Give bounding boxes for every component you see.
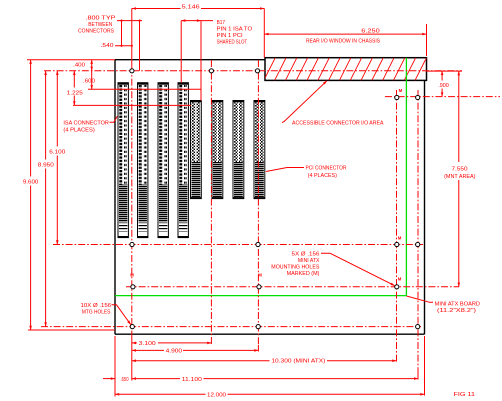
dimension .600 line	[90, 71, 93, 90]
dimension .800 line	[117, 20, 142, 22]
svg-text:B17: B17	[217, 20, 226, 26]
svg-text:7.550: 7.550	[452, 167, 468, 173]
ISA connector 1	[118, 83, 128, 238]
svg-text:(MNT AREA): (MNT AREA)	[444, 174, 476, 180]
dimension 12.000 line	[115, 393, 425, 396]
mini-ATX mounting hole M3	[395, 285, 399, 289]
svg-text:ISA CONNECTOR: ISA CONNECTOR	[63, 121, 109, 127]
centerline row top holes y=70.8	[44, 70, 462, 72]
svg-text:M: M	[398, 236, 402, 241]
svg-text:.400: .400	[73, 63, 85, 69]
svg-text:PIN 1 PCI: PIN 1 PCI	[217, 33, 243, 39]
dimension 5.146 line	[132, 7, 264, 10]
svg-text:M: M	[258, 273, 262, 278]
mounting hole 3	[255, 69, 259, 73]
svg-text:(4 PLACES): (4 PLACES)	[63, 128, 95, 134]
mounting hole 7	[416, 242, 420, 246]
svg-text:10.300 (MINI ATX): 10.300 (MINI ATX)	[271, 359, 325, 365]
extension row y=71.1 right	[426, 70, 462, 72]
svg-text:SHARED SLOT: SHARED SLOT	[217, 40, 248, 46]
dimension 8.950 line	[44, 71, 47, 327]
svg-text:BETWEEN: BETWEEN	[88, 22, 112, 28]
centerline row M holes y=286.8	[126, 286, 459, 288]
dimension .800 extension cols	[122, 21, 140, 71]
dimension B17 shared slot line	[181, 19, 213, 22]
mounting hole 10	[256, 325, 260, 329]
dimension 9.600 line	[29, 60, 32, 330]
dimension 6.100 line	[56, 71, 59, 245]
svg-text:9.600: 9.600	[23, 179, 39, 185]
extension col x=264.3 (5.146 / 6.250)	[263, 9, 265, 58]
svg-text:FIG 11: FIG 11	[454, 392, 476, 398]
mini ATX board outline vertical (green)	[405, 58, 407, 296]
svg-text:MARKED (M): MARKED (M)	[287, 271, 320, 277]
extension col x=201 to PCI1	[200, 21, 202, 101]
note PCI CONNECTOR (4 PLACES)	[306, 165, 347, 179]
svg-text:M: M	[399, 88, 403, 93]
leader ISA note	[110, 116, 118, 122]
centerline col x=396.5	[396, 90, 398, 362]
dimension 7.550 line	[458, 71, 461, 287]
dimension 1.225 line	[73, 71, 76, 106]
leader mini ATX board	[407, 296, 434, 302]
svg-text:MINI ATX: MINI ATX	[298, 258, 320, 264]
mini-ATX mounting hole M2	[395, 242, 399, 246]
dimension 6.250 label	[306, 29, 381, 45]
dimension 11.100 line	[132, 377, 418, 380]
dimension 6.250 line	[264, 33, 426, 36]
centerline row middle holes y=244.5	[53, 244, 423, 246]
ISA connector 2	[138, 83, 148, 238]
dimension 10.300 line	[132, 359, 397, 362]
svg-text:6.100: 6.100	[49, 149, 65, 155]
leader 5X holes	[321, 253, 395, 287]
extension line 9.600 bottom y=330	[28, 329, 115, 331]
note 5X mounting holes	[271, 252, 320, 277]
svg-text:.900: .900	[438, 83, 449, 89]
dimension .900 line	[441, 71, 444, 97]
dimension .400 line	[90, 60, 93, 71]
svg-text:CONNECTORS: CONNECTORS	[78, 29, 115, 35]
centerline col x=258.4	[257, 60, 259, 352]
note .800 TYP BETWEEN CONNECTORS	[78, 15, 116, 34]
svg-text:4.900: 4.900	[166, 348, 183, 354]
leader PCI note	[266, 168, 304, 172]
extension line pin row y=89.3	[88, 88, 201, 90]
board outline (12.000 x 9.600 PCB, black)	[115, 60, 425, 335]
svg-text:1.225: 1.225	[67, 90, 83, 96]
svg-text:3.100: 3.100	[139, 341, 156, 347]
svg-text:6.250: 6.250	[361, 29, 380, 35]
centerline row right holes y=96.6	[385, 96, 500, 98]
svg-text:(4 PLACES): (4 PLACES)	[308, 173, 338, 179]
svg-text:M: M	[130, 273, 134, 278]
svg-text:.540: .540	[101, 43, 114, 49]
extension line pci pin row y=105.4	[73, 104, 191, 106]
note 10X mounting holes	[81, 303, 112, 315]
PCI connector 4	[254, 101, 265, 199]
note MINI ATX BOARD size	[435, 302, 481, 315]
mounting hole 5	[256, 242, 260, 246]
extension line board top y=59.7	[27, 59, 115, 61]
svg-text:.800 TYP: .800 TYP	[86, 15, 117, 21]
rear I/O window (hatched)	[253, 58, 427, 81]
svg-text:10X Ø .156: 10X Ø .156	[81, 303, 112, 309]
svg-text:MOUNTING HOLES: MOUNTING HOLES	[271, 264, 320, 270]
mini-ATX mounting hole M4	[131, 285, 135, 289]
svg-text:MTG HOLES: MTG HOLES	[82, 309, 111, 315]
PCI connector 1	[191, 101, 202, 199]
centerline col x=418.0	[417, 90, 419, 380]
mounting hole 8	[416, 325, 420, 329]
leader accessible connector area	[282, 80, 328, 123]
dimension 4.900 line	[132, 349, 259, 352]
extension col x=181.2 to ISA4	[180, 21, 182, 83]
centerline col x=211.4	[210, 60, 212, 344]
mini ATX board outline horizontal (green)	[115, 295, 406, 297]
svg-text:M: M	[398, 277, 402, 282]
ISA connector 4	[178, 83, 188, 238]
svg-text:MINI ATX BOARD: MINI ATX BOARD	[435, 302, 481, 308]
note ISA CONNECTOR (4 PLACES)	[63, 121, 109, 134]
svg-text:ACCESSIBLE CONNECTOR I/O AREA: ACCESSIBLE CONNECTOR I/O AREA	[292, 121, 384, 127]
svg-text:12.000: 12.000	[207, 393, 226, 399]
svg-text:5.146: 5.146	[182, 4, 200, 10]
svg-text:5X Ø .156: 5X Ø .156	[292, 252, 320, 258]
centerline col x=131.8	[131, 9, 133, 381]
svg-text:.600: .600	[83, 78, 95, 84]
svg-text:PIN 1 ISA TO: PIN 1 ISA TO	[217, 26, 253, 32]
PCI connector 3	[233, 101, 244, 199]
dimension .650 leader	[103, 377, 115, 380]
dimension .540 line	[115, 45, 133, 47]
mounting hole 1	[130, 69, 134, 73]
svg-text:.650: .650	[121, 377, 129, 383]
centerline row bottom holes y=326.6	[41, 326, 421, 328]
dimension 3.100 line	[132, 342, 212, 345]
mounting hole 4	[130, 242, 134, 246]
svg-text:8.950: 8.950	[38, 162, 54, 168]
dimension 7.550 label	[444, 167, 476, 180]
svg-text:(11.2”X8.2”): (11.2”X8.2”)	[437, 308, 476, 314]
note B17 PIN 1 ISA TO PIN 1 PCI SHARED SLOT	[217, 20, 253, 46]
mounting hole 9	[130, 325, 134, 329]
extension col board right bottom	[424, 336, 426, 396]
leader 10X holes	[112, 305, 132, 326]
ISA connector 3	[158, 83, 168, 238]
extension col board left bottom	[114, 336, 116, 397]
PCI connector 2	[212, 101, 223, 199]
svg-text:PCI CONNECTOR: PCI CONNECTOR	[306, 165, 347, 171]
svg-text:REAR I/O WINDOW IN CHASSIS: REAR I/O WINDOW IN CHASSIS	[306, 38, 381, 44]
mini-ATX mounting hole M1	[395, 95, 399, 99]
mini-ATX mounting hole M5	[257, 285, 261, 289]
extension col x=426.5 window right	[426, 24, 428, 56]
mounting hole 2	[209, 69, 213, 73]
svg-text:11.100: 11.100	[182, 377, 202, 383]
mounting hole 6	[416, 95, 420, 99]
